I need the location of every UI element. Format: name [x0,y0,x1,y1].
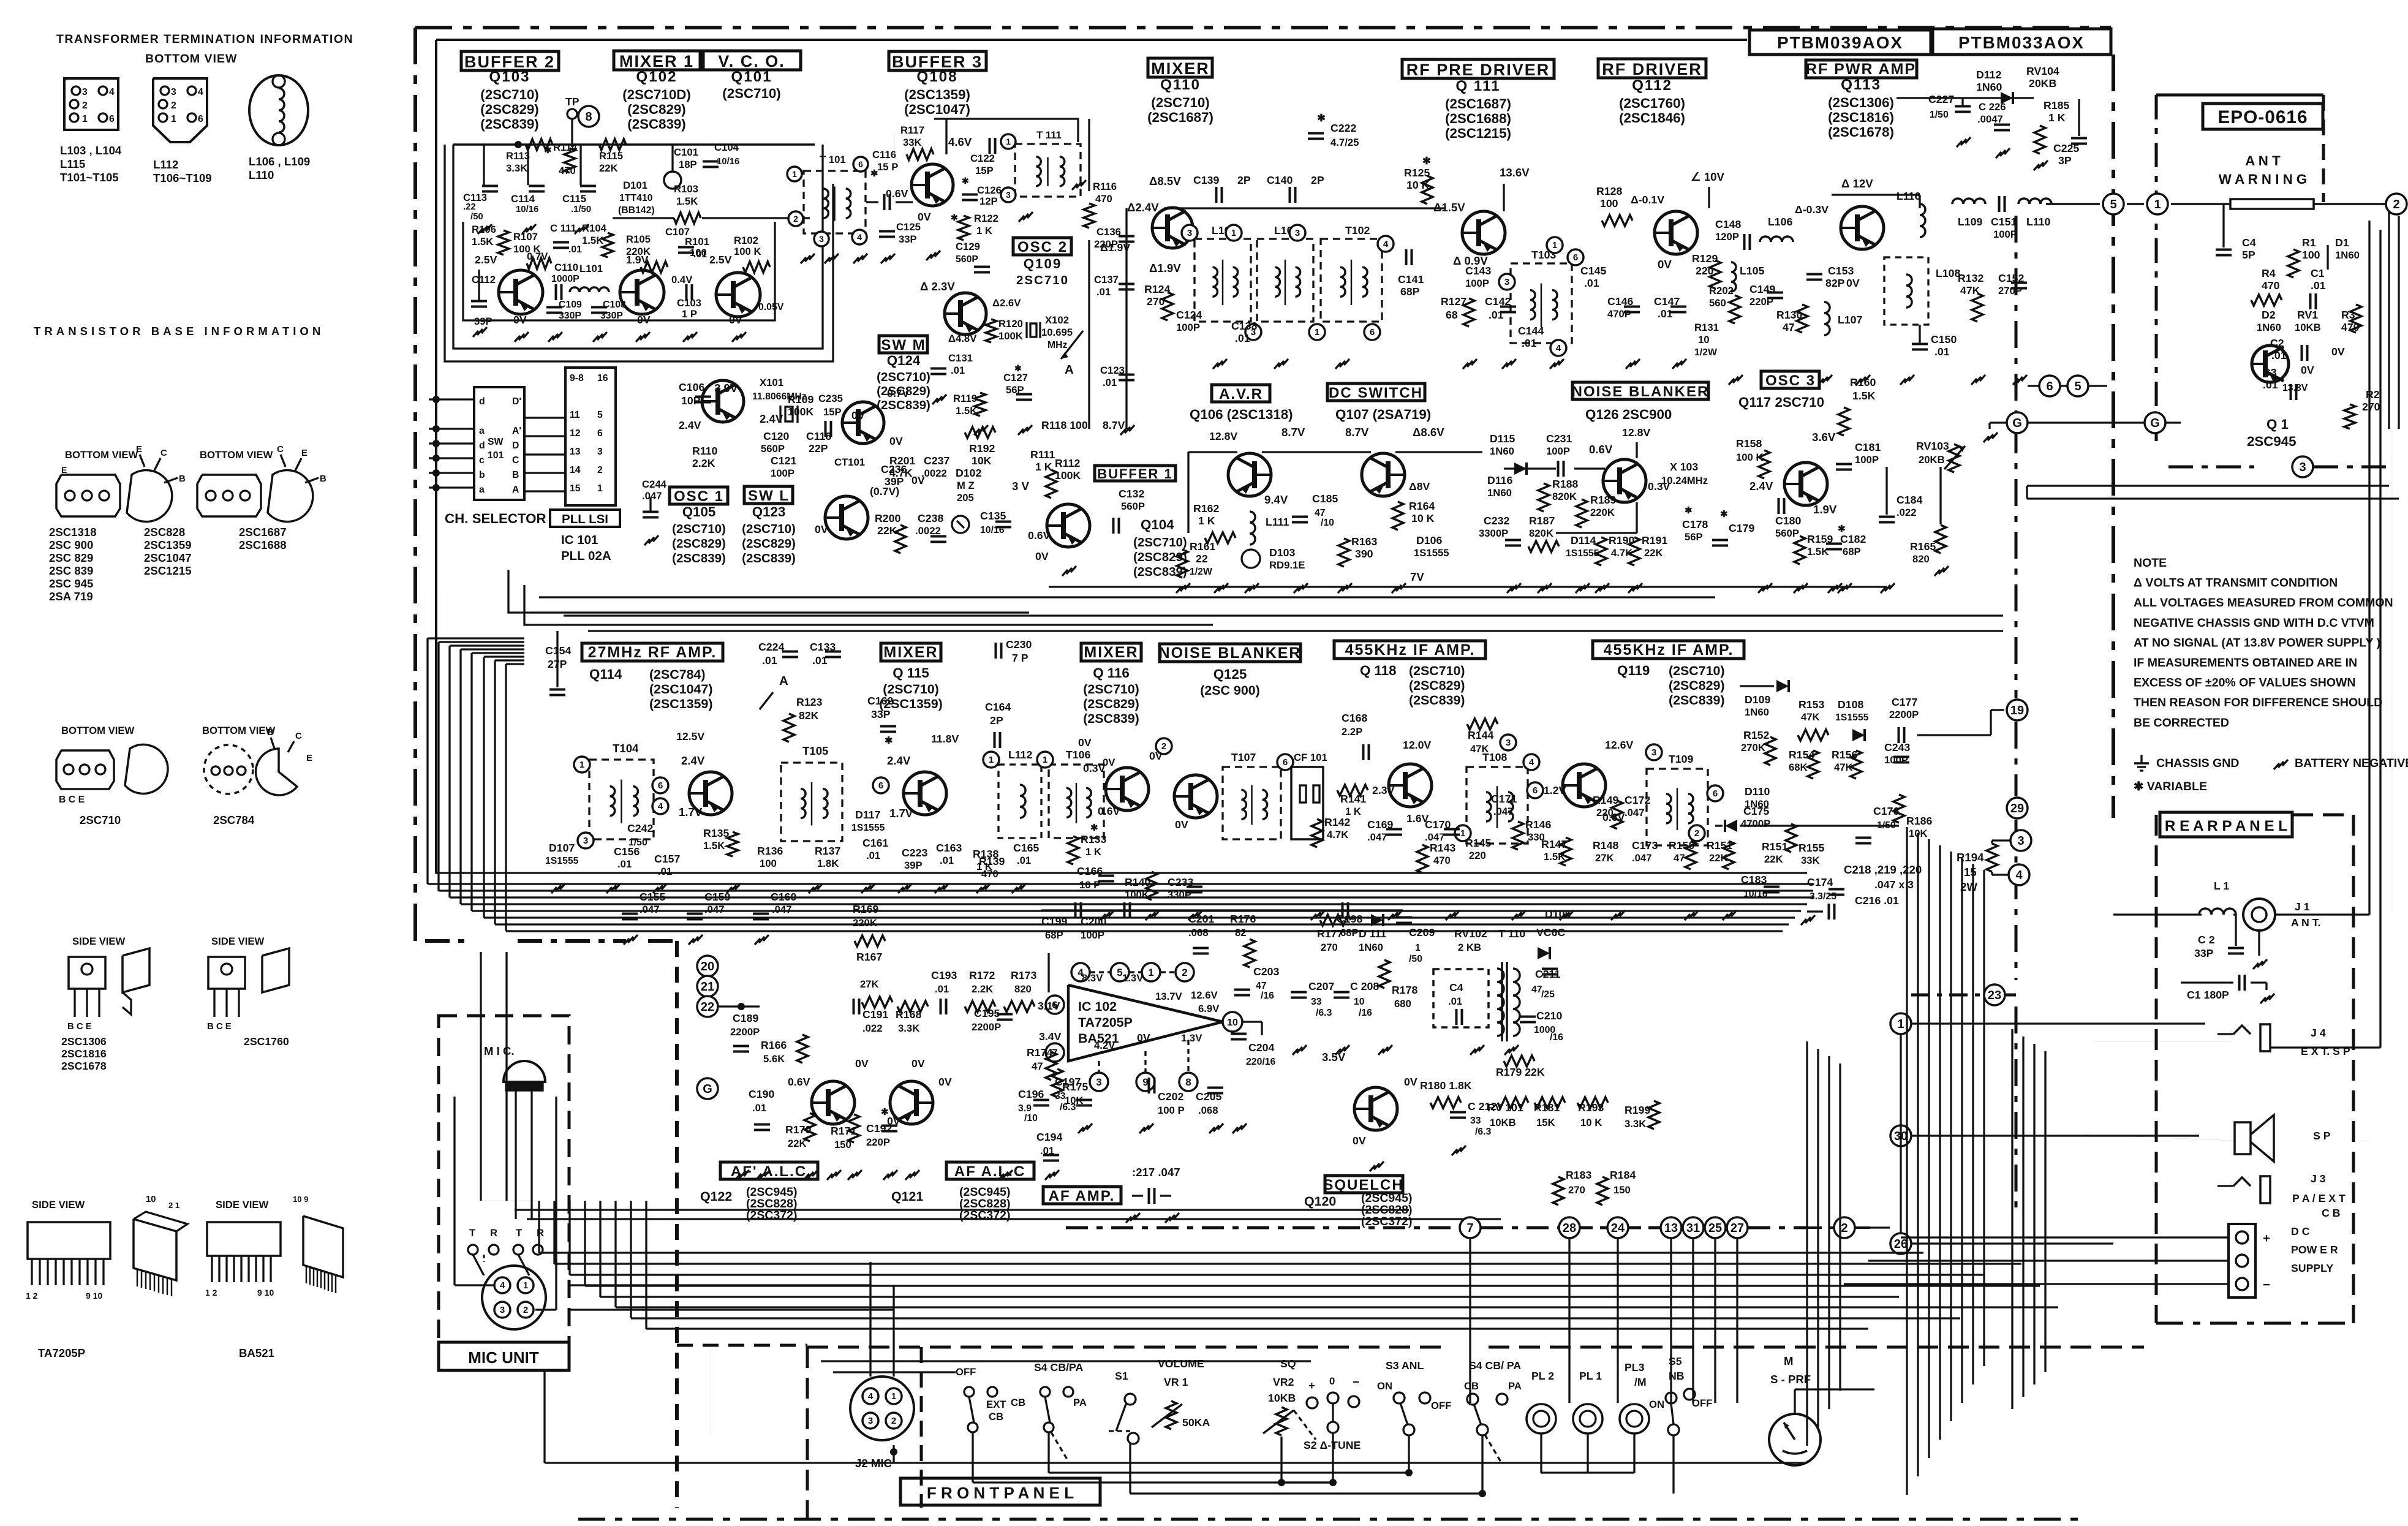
svg-text:3.3K: 3.3K [506,162,527,174]
svg-text:14: 14 [570,465,581,475]
block title AF AMP [1043,1187,1121,1204]
svg-text:6: 6 [597,428,603,439]
inner box buffer2 transistor stage [463,222,775,320]
wire verticals to front panel [1469,1239,1471,1403]
svg-text:10/16: 10/16 [516,205,538,214]
svg-text:R173: R173 [1011,969,1036,981]
junction circle 24 [1607,1217,1628,1238]
svg-text:0.4V: 0.4V [671,274,693,285]
svg-text:R142: R142 [1324,816,1350,828]
ground osc2 area [974,425,988,435]
svg-text:R116: R116 [1093,181,1117,192]
svg-text:AF A.L.C: AF A.L.C [954,1163,1025,1180]
svg-text:8.7V: 8.7V [1103,419,1125,431]
svg-text:C 111: C 111 [550,222,576,234]
note chassis gnd symbols [2140,755,2142,763]
svg-text:0V: 0V [855,1057,869,1070]
svg-text:1N60: 1N60 [1359,942,1383,953]
block title 455KHz IF AMP Q119 [1593,641,1744,659]
svg-text:2.5V: 2.5V [709,254,732,266]
svg-text:L105: L105 [1740,265,1764,277]
svg-text:(2SC1687): (2SC1687) [1445,96,1511,111]
svg-text:(2SC710D): (2SC710D) [622,87,691,102]
block title AVR [1212,385,1270,402]
svg-text:1N60: 1N60 [1487,487,1512,499]
ground pwr band [1729,375,1743,385]
package TO220 outline 2SC1306 [69,957,105,989]
svg-text:100P: 100P [1176,322,1200,333]
svg-text:1: 1 [1148,967,1153,978]
svg-text:C B: C B [2322,1207,2340,1219]
svg-text:(2SC710): (2SC710) [883,682,939,697]
svg-text:Q107 (2SA719): Q107 (2SA719) [1335,407,1431,422]
svg-text:R191: R191 [1642,534,1667,546]
capacitor C101 varicap D101 [664,172,681,189]
svg-text:CF 101: CF 101 [1294,752,1327,763]
svg-text:22: 22 [1196,553,1208,565]
svg-text:E: E [61,465,67,475]
block title MIXER Q116 [1081,643,1141,661]
svg-text:0.7V: 0.7V [887,387,910,399]
svg-text:10.24MHz: 10.24MHz [1661,475,1708,486]
svg-text:B C E: B C E [59,795,85,805]
svg-text:.047: .047 [1493,806,1513,817]
svg-text:(0.7V): (0.7V) [870,485,899,497]
svg-text:C209: C209 [1409,926,1435,939]
svg-text:.068: .068 [1188,927,1208,939]
svg-text:C207: C207 [1308,980,1334,992]
svg-text:✱: ✱ [870,169,878,179]
svg-text:3.3K: 3.3K [1625,1118,1646,1130]
svg-text:BE CORRECTED: BE CORRECTED [2134,716,2229,730]
svg-text:BOTTOM VIEW: BOTTOM VIEW [200,449,273,461]
crystal X102 symbol [1030,323,1036,337]
svg-text:10 P: 10 P [1079,879,1100,891]
svg-text:R162: R162 [1193,502,1219,515]
IC102 pin circle 6 [1046,995,1064,1014]
svg-text:3.5V: 3.5V [1322,1051,1346,1063]
svg-text:.022: .022 [1897,507,1916,518]
ground t101 row [801,254,815,263]
svg-text:100 K: 100 K [734,246,761,257]
svg-text:4: 4 [198,87,203,97]
wire detector rails [1740,685,1774,687]
svg-text:Δ 2.3V: Δ 2.3V [920,280,955,293]
junction circle G right [2145,412,2165,433]
inductor L101 [570,287,609,292]
svg-text:R143: R143 [1430,842,1455,854]
svg-text:(2SC829): (2SC829) [1083,697,1139,711]
svg-text:IF MEASUREMENTS OBTAINED AR: IF MEASUREMENTS OBTAINED ARE IN [2134,656,2357,670]
svg-text:R189: R189 [1590,494,1616,506]
svg-text:C172: C172 [1625,794,1650,806]
svg-text:6: 6 [198,114,203,124]
inductor L105 [1731,262,1736,292]
svg-text:RV102: RV102 [1454,927,1487,940]
svg-text:0V: 0V [1103,757,1115,768]
svg-text:(2SC839): (2SC839) [672,551,726,565]
svg-text:X102: X102 [1045,314,1069,326]
svg-text:R115: R115 [599,150,623,162]
svg-text:C110: C110 [554,262,578,273]
svg-text:270: 270 [2362,401,2380,413]
svg-text:1N60: 1N60 [2257,322,2281,333]
svg-text:S3 ANL: S3 ANL [1386,1359,1424,1372]
svg-text:100: 100 [2302,249,2320,261]
connector J1 ANT [2243,899,2275,931]
transistor drawing row2b [256,749,297,795]
IC102 pin circles top [1071,963,1090,981]
svg-text:(BB142): (BB142) [618,205,655,216]
svg-text:D114: D114 [1571,534,1596,546]
svg-text:C168: C168 [1342,712,1367,724]
svg-text:D102: D102 [956,467,981,479]
svg-text:R113: R113 [506,150,530,162]
svg-text:10KB: 10KB [1268,1392,1296,1404]
svg-text:C160: C160 [771,891,796,903]
wire antenna rail [2046,203,2100,205]
svg-text:1/50: 1/50 [1930,110,1949,120]
svg-text:1S1555: 1S1555 [1835,712,1869,723]
svg-text:4: 4 [658,801,663,812]
svg-text:AF AMP.: AF AMP. [1049,1188,1115,1204]
capacitor C4 dashed box [1433,969,1489,1027]
potentiometer VR2 [1276,1407,1287,1435]
block title RF DRIVER [1598,59,1706,78]
svg-text:C122: C122 [970,153,995,164]
svg-text:C4: C4 [1449,981,1463,994]
svg-text:/16: /16 [1550,1032,1563,1043]
svg-text:7: 7 [1466,1222,1473,1235]
svg-text:120P: 120P [1715,231,1739,243]
svg-text:L108: L108 [1936,267,1960,279]
svg-text:R184: R184 [1610,1169,1636,1181]
svg-text:Q125: Q125 [1213,667,1247,682]
svg-text:R132: R132 [1958,272,1983,284]
svg-text:(2SC1359): (2SC1359) [879,697,942,711]
svg-text:Δ 12V: Δ 12V [1841,177,1873,190]
svg-text:2: 2 [82,100,88,111]
ground if right band [1100,910,1114,920]
svg-text:205: 205 [957,492,974,504]
svg-text:47: 47 [1783,321,1795,333]
svg-text:12.6V: 12.6V [1191,989,1218,1001]
svg-text:33P: 33P [2194,947,2214,959]
svg-text:100: 100 [760,858,777,869]
svg-text:L109: L109 [1958,216,1982,228]
capacitor C109 [546,306,562,309]
svg-text:C109: C109 [559,300,582,310]
transistor can drawing row1a [127,470,172,522]
capacitor C151 label [1998,196,2001,212]
svg-text:1: 1 [1043,755,1047,765]
junction circle 22 [697,996,718,1017]
svg-text:BATTERY NEGATIVE: BATTERY NEGATIVE [2295,757,2408,770]
svg-text:(2SC839): (2SC839) [1083,711,1139,726]
capacitor C111 [553,241,569,244]
svg-text:D103: D103 [1269,546,1295,559]
svg-text:EXCESS OF ±20% OF VALUES: EXCESS OF ±20% OF VALUES SHOWN [2134,676,2355,690]
svg-text:✱: ✱ [1090,823,1098,833]
junction circle 3 right [2010,830,2031,851]
connector outline L106/L109/L110 bottom view [249,75,308,145]
svg-text:EPO-0616: EPO-0616 [2217,107,2308,127]
svg-text:22K: 22K [877,524,897,537]
svg-text:1: 1 [1552,240,1557,251]
svg-text:D105: D105 [1545,908,1571,920]
block title SW L [744,486,793,504]
junction circle 5 mid [2067,376,2088,396]
svg-text:1 2: 1 2 [205,1288,217,1297]
svg-text:2SC1318: 2SC1318 [49,526,97,538]
PTBM039AOX title box [1749,30,1931,55]
svg-text:R120: R120 [998,318,1023,330]
svg-text:T105: T105 [802,744,828,757]
svg-text:G: G [2150,417,2160,430]
capacitor C113 [482,185,498,187]
svg-text:R129: R129 [1692,252,1718,265]
svg-text:C178: C178 [1682,518,1708,531]
svg-text:F R O N T P A N E L: F R O N T P A N E L [927,1484,1074,1502]
svg-text:R164: R164 [1409,500,1435,512]
svg-text:TA7205P: TA7205P [38,1347,85,1359]
svg-text:15 P: 15 P [877,161,898,173]
svg-text:(2SC1678): (2SC1678) [1828,124,1894,140]
svg-text:4: 4 [1383,239,1389,249]
svg-text:Q112: Q112 [1632,77,1672,94]
svg-text:R135: R135 [703,827,729,839]
svg-text:(2SC839): (2SC839) [877,398,930,412]
block title OSC 2 [1013,238,1071,255]
front panel dashed border left [806,1347,809,1519]
svg-text:OFF: OFF [1431,1400,1451,1411]
svg-text:OSC 2: OSC 2 [1017,239,1068,255]
svg-text:T101~T105: T101~T105 [60,171,119,184]
svg-text:.22: .22 [463,202,476,212]
MIC UNIT label box [439,1342,569,1370]
junction circle 25 [1705,1217,1726,1238]
svg-text:✱: ✱ [1838,524,1846,534]
transformer T103 [1511,263,1572,343]
svg-text:3: 3 [1187,228,1192,238]
svg-text:.01: .01 [1103,377,1117,388]
svg-text:PL 2: PL 2 [1531,1370,1554,1382]
svg-text:RV1: RV1 [2297,309,2318,321]
svg-text:C202: C202 [1158,1090,1183,1103]
svg-text:L107: L107 [1838,314,1862,326]
inductor L103 tank [1195,239,1251,322]
svg-text:C201: C201 [1188,913,1214,925]
inductor L108 dashed [1884,257,1928,325]
svg-text:R155: R155 [1798,842,1824,854]
ground af cluster [1293,1045,1307,1055]
svg-text:OFF: OFF [956,1366,976,1378]
svg-text:8: 8 [585,110,592,124]
svg-text:2.4V: 2.4V [1749,480,1773,493]
svg-text:47: 47 [1256,981,1267,991]
svg-text:(2SC1359): (2SC1359) [649,697,712,711]
svg-text:12: 12 [570,428,581,439]
IC102 pin circles bottom [1090,1073,1108,1091]
svg-text:220K: 220K [1590,507,1615,518]
transformer T109 [1647,769,1708,845]
svg-text:/16: /16 [1261,991,1274,1001]
svg-text:Q 111: Q 111 [1455,78,1500,94]
svg-text:TA7205P: TA7205P [1078,1015,1133,1030]
svg-text:.01: .01 [951,365,965,376]
wire osc1 row frame [508,570,1029,613]
ground avr band [1176,583,1190,593]
svg-text:220P: 220P [866,1136,890,1148]
svg-text:C103: C103 [677,297,701,309]
svg-text:2 1: 2 1 [168,1201,179,1210]
svg-text:RV104: RV104 [2026,65,2059,77]
svg-text:R2: R2 [2366,388,2380,401]
transistor Q116 drawing [1106,768,1149,810]
svg-text:C132: C132 [1119,488,1144,500]
wires into SW101 [429,398,474,400]
svg-text:101: 101 [488,450,504,461]
svg-text:1N60: 1N60 [1490,445,1514,457]
svg-text:1S1555: 1S1555 [1414,547,1449,559]
svg-text:1.5K: 1.5K [1852,390,1876,402]
svg-text:220: 220 [1469,850,1486,861]
block title BUFFER 3 [889,51,986,71]
block title 455KHz IF AMP Q118 [1334,641,1485,659]
svg-text:(2SC1215): (2SC1215) [1445,126,1511,141]
junction circle 27 [1727,1217,1748,1238]
svg-text:PL3: PL3 [1625,1361,1645,1373]
svg-text:DC SWITCH: DC SWITCH [1329,385,1423,401]
svg-text:100K: 100K [788,406,814,418]
svg-text:B: B [179,474,186,484]
FRONT PANEL label box [900,1478,1100,1505]
svg-text:.01: .01 [1584,277,1599,289]
svg-text:B C E: B C E [67,1022,92,1032]
svg-text:C244: C244 [642,478,667,490]
svg-text:R185: R185 [2044,99,2069,111]
svg-text:10: 10 [1698,334,1710,346]
svg-text:C224: C224 [758,641,784,653]
EPO-0616 board border [2156,94,2323,97]
svg-text:68P: 68P [1400,285,1420,298]
svg-text:T109: T109 [1669,753,1693,765]
svg-text:C: C [277,445,284,455]
J2 sub box dashed right edge [920,1347,923,1508]
svg-text:C194: C194 [1036,1131,1062,1143]
svg-text:C4: C4 [2242,236,2256,249]
svg-text:Δ8.5V: Δ8.5V [1149,175,1181,187]
svg-text:26: 26 [1894,1237,1908,1251]
svg-text:2: 2 [1161,741,1166,752]
capacitor C218 symbol [1828,904,1830,920]
svg-text:1N60: 1N60 [1745,706,1769,718]
junction circle 28 [1559,1217,1580,1238]
svg-text:∠ 10V: ∠ 10V [1691,170,1725,183]
border solid inner top [436,39,1747,41]
svg-text:X 103: X 103 [1670,461,1698,473]
wire vco row [613,217,674,219]
transformer T110 winding [1501,962,1503,1041]
svg-text:21: 21 [701,980,714,994]
svg-text:.047: .047 [1625,807,1644,818]
svg-text:1: 1 [2154,198,2161,211]
svg-text:2.5V: 2.5V [475,254,497,266]
svg-text:1: 1 [1415,943,1421,953]
svg-text:100 P: 100 P [1158,1105,1185,1116]
junction circle 23 [1984,984,2005,1005]
border solid inner left [435,40,437,873]
svg-text:C227: C227 [1928,93,1954,105]
svg-text:TRANSFORMER TERMINATION IN: TRANSFORMER TERMINATION INFORMATION [56,32,353,46]
mic connector plug [482,1266,546,1329]
svg-text:1: 1 [579,760,584,770]
svg-text:(2SC1047): (2SC1047) [649,682,712,697]
svg-text:CB: CB [989,1411,1003,1422]
svg-text:C181: C181 [1855,441,1881,453]
svg-text:100K: 100K [998,330,1023,342]
svg-text:D2: D2 [2262,309,2276,321]
svg-text:SIDE VIEW: SIDE VIEW [216,1199,268,1211]
border dash-dot segment junction 15 16 to 9 [518,939,626,943]
svg-text:3.1V: 3.1V [1038,1000,1060,1012]
svg-text:C163: C163 [936,842,962,854]
svg-text:R125: R125 [1404,167,1430,179]
svg-text:C126: C126 [977,184,1002,196]
svg-text:L106 , L109: L106 , L109 [249,155,310,168]
svg-text:R136: R136 [757,845,783,857]
junction circle 8 [578,106,599,127]
svg-text:C231: C231 [1546,432,1572,445]
block title DC SWITCH [1327,383,1425,401]
wire pin10 out [1242,1021,1262,1022]
svg-text:BOTTOM VIEW: BOTTOM VIEW [65,449,138,461]
svg-text:✱: ✱ [1720,510,1728,519]
wire long rail y1030 [588,630,2003,632]
svg-text:R165: R165 [1910,540,1936,553]
svg-text:T 101: T 101 [820,154,846,165]
svg-text:Q123: Q123 [752,504,786,519]
svg-text:22K: 22K [599,162,618,174]
svg-text:C118: C118 [806,430,831,442]
svg-text:L103 , L104: L103 , L104 [60,144,122,157]
svg-text:✱: ✱ [544,146,552,156]
ground top right cluster [1957,137,1971,147]
svg-text:C: C [160,448,167,458]
wire bottom bus bundle [539,1252,1923,1253]
svg-text:4: 4 [500,1280,505,1291]
svg-text:1: 1 [1231,228,1236,238]
svg-text:2SC1816: 2SC1816 [61,1048,107,1060]
svg-text:R111: R111 [1030,448,1055,461]
svg-text:.01: .01 [1934,346,1950,358]
svg-text:BOTTOM VIEW: BOTTOM VIEW [145,52,237,66]
svg-text:12.8V: 12.8V [1209,430,1237,442]
svg-text:68P: 68P [1045,929,1063,941]
border main board dash-dot left [413,28,417,919]
svg-text:12.5V: 12.5V [676,730,704,742]
svg-text:0V: 0V [1846,277,1860,289]
IC SW101 channel selector switch box [474,387,524,500]
svg-text:C191: C191 [862,1008,888,1021]
capacitor C108 [591,306,607,309]
svg-text:33: 33 [1470,1116,1481,1126]
svg-text:6: 6 [1283,757,1288,768]
svg-text:3 V: 3 V [1012,480,1030,493]
wire mic unit to J2 [569,1284,870,1286]
ground buffer2 caps [478,224,492,234]
svg-text:(2SC829): (2SC829) [480,102,538,117]
